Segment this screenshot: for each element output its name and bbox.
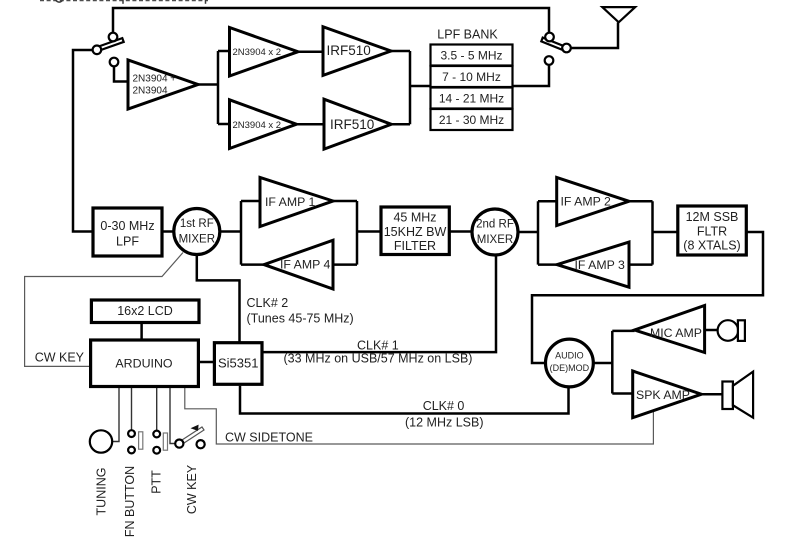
svg-text:2nd RF: 2nd RF <box>476 219 514 231</box>
svg-text:CLK# 1: CLK# 1 <box>357 338 399 352</box>
svg-text:7 - 10 MHz: 7 - 10 MHz <box>442 70 501 84</box>
svg-text:14 - 21 MHz: 14 - 21 MHz <box>439 91 504 105</box>
svg-text:16x2 LCD: 16x2 LCD <box>117 304 173 318</box>
svg-text:LPF BANK: LPF BANK <box>437 28 498 42</box>
svg-text:(12 MHz LSB): (12 MHz LSB) <box>405 416 484 430</box>
svg-text:2N3904: 2N3904 <box>133 86 168 97</box>
svg-text:IRF510: IRF510 <box>327 43 371 58</box>
svg-text:IRF510: IRF510 <box>330 117 374 132</box>
svg-text:0-30 MHz: 0-30 MHz <box>100 219 154 233</box>
svg-text:Si5351: Si5351 <box>218 355 258 370</box>
svg-text:LPF: LPF <box>116 235 139 249</box>
svg-text:CW KEY: CW KEY <box>35 350 85 364</box>
svg-text:IF AMP 1: IF AMP 1 <box>265 195 316 209</box>
svg-text:2N3904 +: 2N3904 + <box>133 74 177 85</box>
svg-text:IF AMP 3: IF AMP 3 <box>575 258 626 272</box>
svg-text:TUNING: TUNING <box>94 468 108 516</box>
svg-text:(Tunes 45-75 MHz): (Tunes 45-75 MHz) <box>247 311 354 325</box>
svg-text:45 MHz: 45 MHz <box>393 211 436 225</box>
svg-text:MIXER: MIXER <box>179 234 215 246</box>
svg-text:(33 MHz on USB/57 MHz on LSB): (33 MHz on USB/57 MHz on LSB) <box>284 351 473 365</box>
svg-text:FN BUTTON: FN BUTTON <box>123 466 137 537</box>
svg-text:AUDIO: AUDIO <box>555 350 584 360</box>
svg-text:FILTER: FILTER <box>394 239 436 253</box>
svg-text:1st RF: 1st RF <box>180 218 214 230</box>
svg-text:IF AMP 2: IF AMP 2 <box>561 195 612 209</box>
svg-text:CLK# 0: CLK# 0 <box>423 399 465 413</box>
svg-text:21 - 30 MHz: 21 - 30 MHz <box>439 113 504 127</box>
svg-text:FLTR: FLTR <box>697 224 727 238</box>
svg-text:MIC AMP: MIC AMP <box>650 326 702 340</box>
svg-text:SPK AMP: SPK AMP <box>636 388 690 402</box>
svg-text:15KHZ BW: 15KHZ BW <box>384 225 447 239</box>
svg-text:ARDUINO: ARDUINO <box>115 356 172 370</box>
svg-text:CW KEY: CW KEY <box>185 464 199 514</box>
svg-text:CLK# 2: CLK# 2 <box>247 296 289 310</box>
svg-text:3.5 - 5 MHz: 3.5 - 5 MHz <box>440 48 502 62</box>
svg-text:(DE)MOD: (DE)MOD <box>550 363 590 373</box>
svg-text:12M SSB: 12M SSB <box>686 210 739 224</box>
svg-text:CW SIDETONE: CW SIDETONE <box>225 431 313 445</box>
svg-text:MIXER: MIXER <box>477 234 513 246</box>
svg-text:(8 XTALS): (8 XTALS) <box>683 239 740 253</box>
svg-text:IF AMP 4: IF AMP 4 <box>280 258 331 272</box>
svg-text:2N3904 x 2: 2N3904 x 2 <box>233 120 282 131</box>
svg-text:2N3904 x 2: 2N3904 x 2 <box>233 47 282 58</box>
svg-text:PTT: PTT <box>150 470 164 494</box>
